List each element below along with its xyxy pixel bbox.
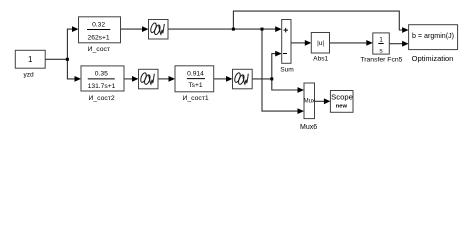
svg-text:1: 1 (379, 37, 383, 44)
svg-text:|u|: |u| (317, 40, 324, 47)
svg-text:Sum: Sum (280, 66, 294, 73)
svg-text:Mux: Mux (304, 98, 315, 104)
svg-text:Scope: Scope (331, 93, 353, 102)
svg-text:b = argmin(J): b = argmin(J) (412, 32, 454, 40)
svg-text:0.914: 0.914 (187, 70, 204, 77)
svg-text:131.7s+1: 131.7s+1 (88, 83, 116, 90)
svg-text:И_сост: И_сост (88, 46, 110, 53)
svg-text:Mux6: Mux6 (300, 124, 317, 131)
svg-text:yzd: yzd (23, 71, 34, 78)
svg-text:Optimization: Optimization (412, 54, 454, 63)
svg-text:И_сост1: И_сост1 (182, 95, 208, 102)
svg-text:Ts+1: Ts+1 (188, 82, 203, 89)
svg-text:Abs1: Abs1 (313, 56, 328, 63)
svg-text:0.35: 0.35 (95, 71, 108, 78)
svg-text:1: 1 (28, 55, 33, 64)
svg-text:И_сост2: И_сост2 (88, 95, 114, 102)
svg-text:Transfer Fcn5: Transfer Fcn5 (360, 57, 402, 64)
svg-text:0.32: 0.32 (92, 21, 105, 28)
svg-text:new: new (336, 103, 348, 109)
svg-text:262s+1: 262s+1 (88, 34, 110, 41)
